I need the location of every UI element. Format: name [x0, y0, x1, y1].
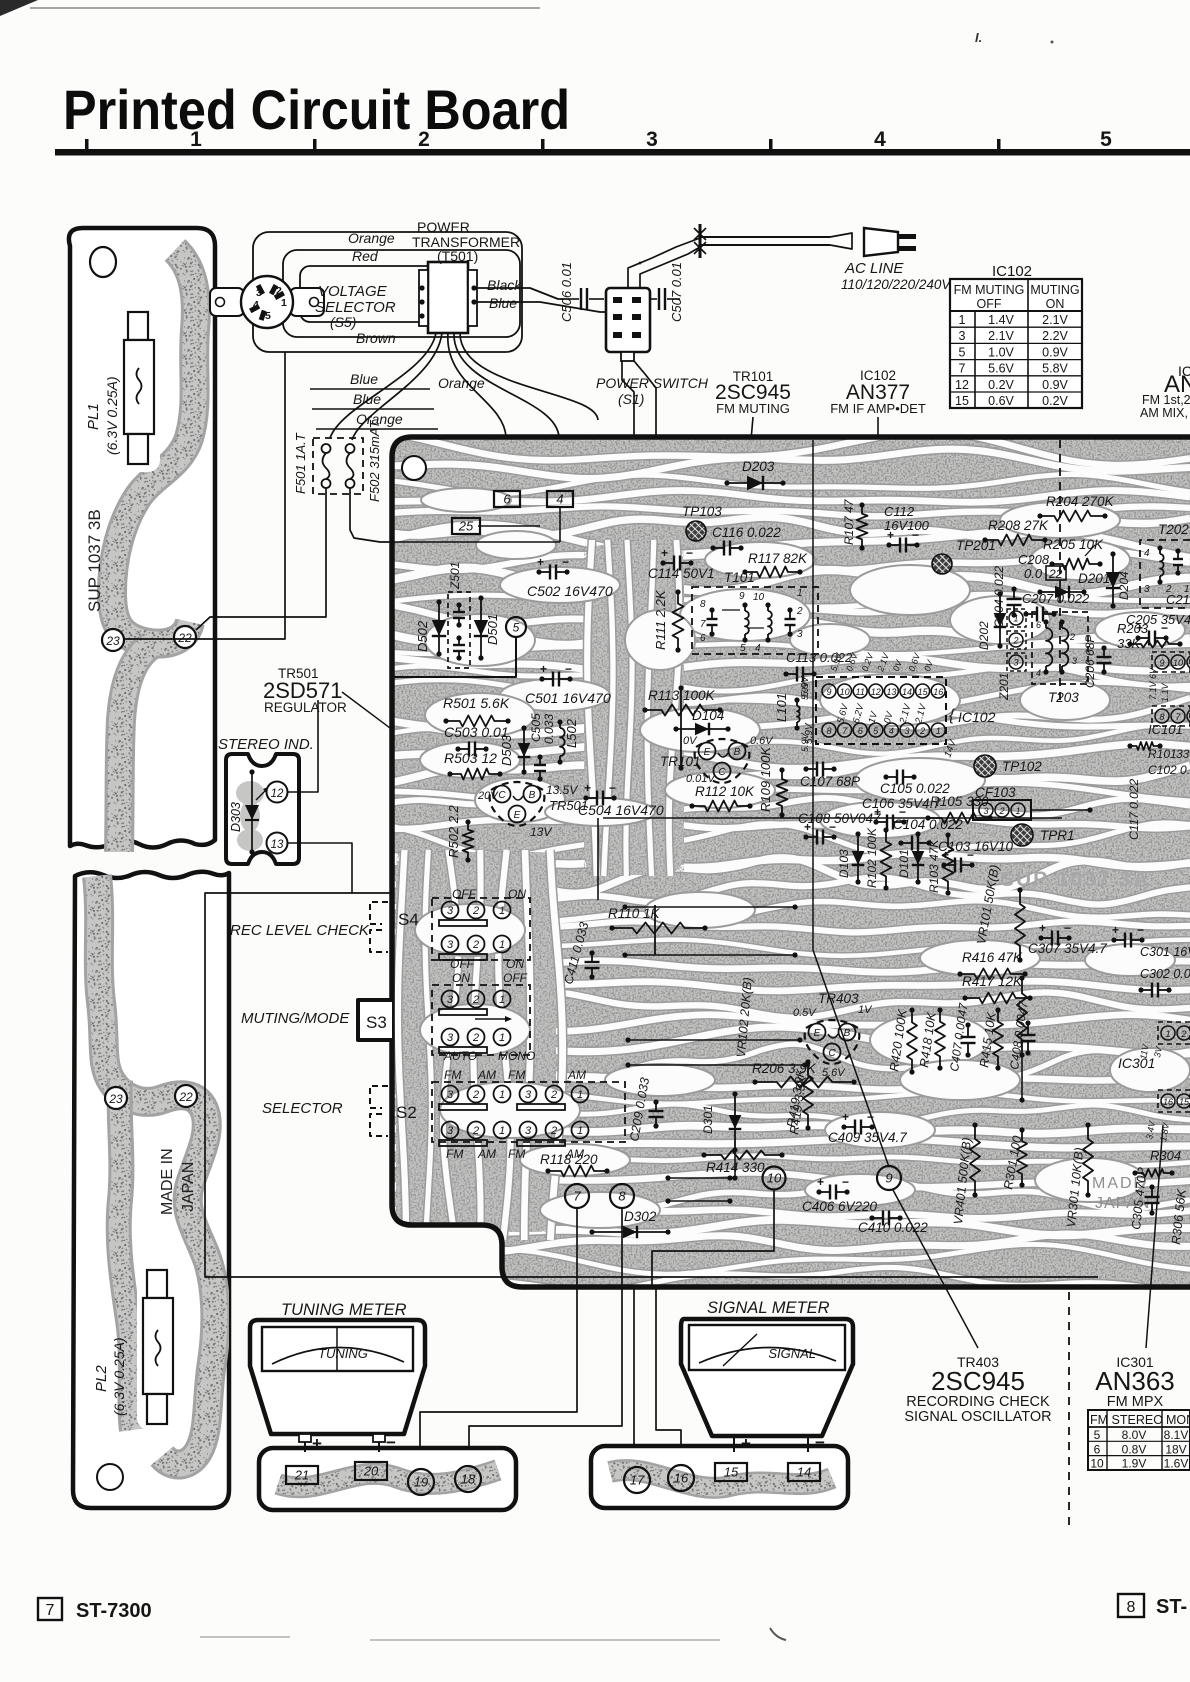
- svg-text:STEREO IND.: STEREO IND.: [218, 736, 314, 753]
- svg-text:TP102: TP102: [1002, 759, 1042, 774]
- svg-text:21: 21: [294, 1468, 309, 1483]
- svg-text:D201: D201: [1078, 571, 1110, 586]
- svg-text:FM STEREO: FM STEREO: [1090, 1413, 1163, 1427]
- svg-text:SIGNAL OSCILLATOR: SIGNAL OSCILLATOR: [904, 1409, 1051, 1425]
- signal meter body: [681, 1319, 853, 1436]
- svg-text:Z201: Z201: [997, 673, 1011, 701]
- svg-text:15: 15: [724, 1465, 739, 1480]
- svg-text:5.9V: 5.9V: [800, 680, 810, 700]
- svg-text:6: 6: [1094, 1442, 1101, 1456]
- fuse F502: [346, 444, 355, 453]
- voltage selector S5 body: [241, 276, 293, 328]
- svg-text:3: 3: [447, 1032, 454, 1044]
- svg-text:Black: Black: [487, 277, 522, 293]
- signal terminals: [733, 1436, 735, 1452]
- wire loop inner: [300, 266, 442, 322]
- svg-text:SUP 1037 3B: SUP 1037 3B: [85, 509, 104, 612]
- svg-text:20V: 20V: [477, 790, 499, 802]
- S3 dashed box: [432, 985, 530, 1055]
- mounting hole board2: [97, 1464, 123, 1490]
- svg-text:1: 1: [1013, 614, 1018, 624]
- svg-text:19: 19: [414, 1475, 428, 1490]
- svg-text:0.6V: 0.6V: [988, 394, 1014, 408]
- svg-text:Red: Red: [352, 248, 379, 264]
- svg-text:R105 330: R105 330: [930, 794, 989, 809]
- svg-text:5: 5: [740, 643, 746, 654]
- svg-text:−: −: [565, 662, 572, 676]
- svg-text:T203: T203: [1048, 690, 1079, 705]
- svg-text:C206 68P: C206 68P: [1083, 635, 1097, 688]
- S4 bracket: [370, 902, 388, 924]
- svg-text:R502 2.2: R502 2.2: [446, 804, 461, 858]
- svg-text:R503 12: R503 12: [444, 750, 497, 766]
- svg-text:L502: L502: [564, 718, 579, 748]
- svg-text:C: C: [498, 790, 506, 801]
- svg-text:(S1): (S1): [618, 391, 644, 407]
- svg-text:D302: D302: [624, 1209, 657, 1224]
- svg-text:Printed Circuit Board: Printed Circuit Board: [63, 78, 570, 141]
- svg-text:2: 2: [998, 806, 1004, 816]
- svg-text:R111 2.2K: R111 2.2K: [653, 589, 668, 650]
- svg-text:2: 2: [472, 939, 479, 951]
- svg-text:9: 9: [885, 1171, 892, 1186]
- svg-text:(6.3V 0.25A): (6.3V 0.25A): [111, 1337, 127, 1416]
- svg-text:−: −: [1161, 621, 1168, 635]
- svg-text:D101: D101: [897, 849, 911, 878]
- svg-text:+: +: [540, 662, 547, 676]
- svg-text:RECORDING CHECK: RECORDING CHECK: [906, 1394, 1050, 1410]
- svg-text:−: −: [912, 528, 919, 542]
- svg-text:+: +: [312, 1434, 322, 1453]
- S2 contacts g2r1: [520, 1086, 537, 1103]
- svg-text:1: 1: [936, 726, 941, 736]
- svg-text:12: 12: [871, 687, 881, 697]
- svg-text:TPR1: TPR1: [1040, 828, 1075, 843]
- svg-text:TUNING METER: TUNING METER: [281, 1301, 407, 1319]
- transformer secondary wires: [330, 333, 436, 438]
- wire loop red: [283, 250, 520, 337]
- svg-text:C: C: [718, 767, 726, 778]
- dashed section line: [1059, 440, 1061, 700]
- S3 contacts row2: [442, 1029, 459, 1046]
- svg-text:3: 3: [256, 287, 262, 299]
- svg-text:13: 13: [886, 687, 896, 697]
- svg-text:R501 5.6K: R501 5.6K: [443, 695, 510, 711]
- svg-text:C504 16V470: C504 16V470: [578, 802, 664, 818]
- PL2 copper trace: [97, 876, 215, 1465]
- svg-text:IC101: IC101: [1148, 722, 1183, 737]
- svg-text:SUP 1037 3A: SUP 1037 3A: [1000, 868, 1150, 891]
- svg-text:4: 4: [1144, 548, 1150, 559]
- stereo indicator board: [226, 754, 299, 864]
- svg-text:D202: D202: [977, 621, 991, 650]
- svg-text:C112: C112: [884, 504, 915, 519]
- terminal 10: [763, 1167, 786, 1190]
- svg-text:23: 23: [108, 1092, 123, 1106]
- svg-text:MUTING/MODE: MUTING/MODE: [241, 1010, 350, 1027]
- lamp board PL1 outline: [69, 228, 215, 848]
- S4 contacts row1: [442, 902, 459, 919]
- svg-text:D303: D303: [229, 802, 243, 832]
- svg-text:OFF: OFF: [977, 297, 1002, 311]
- svg-text:2: 2: [276, 285, 282, 297]
- svg-text:IC102: IC102: [992, 263, 1032, 280]
- svg-text:1.1V: 1.1V: [1160, 682, 1170, 702]
- mounting hole: [90, 247, 116, 277]
- svg-text:10: 10: [840, 687, 850, 697]
- test point TPR1: [1011, 824, 1033, 846]
- svg-text:REC LEVEL CHECK: REC LEVEL CHECK: [230, 922, 370, 939]
- svg-text:C208: C208: [1018, 552, 1050, 567]
- svg-text:6: 6: [858, 726, 863, 736]
- S4 contacts row2: [442, 936, 459, 953]
- svg-text:18: 18: [461, 1472, 476, 1487]
- svg-text:1: 1: [499, 1125, 505, 1137]
- svg-text:B: B: [529, 790, 536, 801]
- voltage selector S5 plate: [210, 288, 244, 316]
- svg-text:FM MUTING: FM MUTING: [954, 283, 1025, 297]
- svg-text:D502: D502: [415, 620, 430, 652]
- svg-text:9: 9: [739, 591, 745, 602]
- svg-text:0V: 0V: [683, 735, 698, 747]
- AC cord: [700, 236, 830, 238]
- svg-text:5.9V: 5.9V: [800, 732, 810, 752]
- svg-text:C301 16V10: C301 16V10: [1140, 945, 1190, 959]
- svg-text:+: +: [817, 1175, 824, 1189]
- svg-text:1: 1: [1165, 1029, 1170, 1039]
- svg-text:15: 15: [955, 394, 969, 408]
- svg-text:17: 17: [630, 1473, 645, 1488]
- svg-text:2.1V: 2.1V: [988, 329, 1014, 343]
- svg-text:16: 16: [933, 687, 943, 697]
- pointer line TR403: [893, 1190, 978, 1348]
- svg-text:R117 82K: R117 82K: [748, 551, 808, 566]
- svg-text:D103: D103: [837, 849, 851, 878]
- svg-text:0.8V: 0.8V: [1122, 1442, 1147, 1456]
- svg-text:ST-7300: ST-7300: [76, 1600, 152, 1622]
- svg-text:0.0: 0.0: [1024, 566, 1043, 581]
- svg-text:5: 5: [959, 345, 966, 359]
- svg-text:C107 68P: C107 68P: [800, 774, 860, 789]
- svg-text:T202: T202: [1158, 522, 1189, 537]
- svg-text:C116 0.022: C116 0.022: [712, 525, 781, 540]
- svg-text:2SC945: 2SC945: [931, 1366, 1025, 1396]
- svg-text:4: 4: [253, 299, 259, 311]
- svg-text:10: 10: [753, 592, 765, 603]
- svg-text:R414 330: R414 330: [706, 1160, 765, 1175]
- terminal 22: [174, 626, 196, 648]
- svg-text:R103 47K: R103 47K: [927, 839, 941, 893]
- lamp board PL2 outline: [73, 872, 229, 1508]
- svg-text:C501 16V470: C501 16V470: [525, 690, 611, 706]
- footer page 8: [1118, 1594, 1144, 1617]
- svg-text:FM IF AMP•DET: FM IF AMP•DET: [830, 401, 926, 416]
- svg-text:D501: D501: [485, 614, 500, 645]
- svg-text:IC102: IC102: [958, 709, 996, 725]
- svg-text:C307 35V4.7: C307 35V4.7: [1028, 941, 1107, 956]
- wire from 10: [652, 1190, 774, 1287]
- svg-text:POWER: POWER: [417, 219, 470, 235]
- svg-text:OFF: OFF: [450, 957, 475, 971]
- svg-text:REGULATOR: REGULATOR: [264, 700, 347, 715]
- pointer line AN377: [877, 417, 879, 680]
- svg-text:3: 3: [646, 128, 658, 151]
- svg-text:2: 2: [1012, 636, 1018, 646]
- svg-text:8: 8: [700, 599, 706, 610]
- svg-text:FM: FM: [508, 1068, 525, 1082]
- svg-text:2: 2: [472, 1032, 479, 1044]
- svg-text:13.5V: 13.5V: [546, 783, 578, 797]
- svg-text:4: 4: [556, 492, 563, 507]
- svg-text:−: −: [1064, 921, 1071, 935]
- svg-text:+: +: [804, 820, 811, 834]
- svg-text:PL2: PL2: [93, 1365, 110, 1392]
- terminal 4: [547, 491, 573, 507]
- svg-text:2: 2: [472, 1125, 479, 1137]
- long wire to terminal 17: [622, 361, 634, 1464]
- svg-text:R107 47: R107 47: [842, 498, 856, 545]
- vertical trace pair: [680, 688, 682, 768]
- S3 contacts row1: [442, 991, 459, 1008]
- svg-text:+: +: [741, 1434, 751, 1453]
- svg-text:3: 3: [447, 994, 454, 1006]
- svg-text:2: 2: [472, 994, 479, 1006]
- tuning meter body: [250, 1320, 425, 1434]
- svg-text:SIGNAL: SIGNAL: [768, 1346, 816, 1361]
- copper trace texture: [380, 432, 1190, 466]
- svg-text:14: 14: [797, 1465, 811, 1480]
- svg-text:10: 10: [767, 1171, 782, 1186]
- terminal 15: [715, 1463, 747, 1481]
- svg-text:13: 13: [271, 839, 284, 851]
- svg-text:ST-: ST-: [1156, 1596, 1187, 1618]
- svg-text:3: 3: [1072, 656, 1077, 666]
- svg-text:13V: 13V: [530, 825, 552, 839]
- svg-text:JAPAN: JAPAN: [180, 1162, 197, 1212]
- svg-text:11: 11: [856, 687, 865, 697]
- svg-text:1: 1: [499, 905, 505, 917]
- svg-text:MUTING: MUTING: [1030, 283, 1079, 297]
- svg-text:1: 1: [499, 939, 505, 951]
- svg-text:−: −: [609, 781, 616, 795]
- svg-text:S2: S2: [396, 1103, 417, 1122]
- svg-text:C410 0.022: C410 0.022: [858, 1220, 928, 1235]
- svg-text:ON: ON: [506, 957, 524, 971]
- S2 contacts g2r2: [520, 1122, 537, 1139]
- trace pair dots: [625, 906, 795, 908]
- svg-text:2.1V: 2.1V: [1042, 313, 1068, 327]
- svg-text:16: 16: [1163, 1097, 1173, 1107]
- terminal 25: [452, 518, 480, 534]
- svg-text:C117 0.022: C117 0.022: [1127, 779, 1141, 840]
- scan specks: [0, 0, 38, 16]
- svg-text:TUNING: TUNING: [318, 1346, 368, 1361]
- pointer line TR101: [723, 417, 753, 766]
- svg-text:C104 0.022: C104 0.022: [893, 817, 963, 832]
- svg-text:AM: AM: [567, 1068, 586, 1082]
- svg-text:ON: ON: [1046, 297, 1065, 311]
- svg-text:0.033: 0.033: [542, 714, 556, 744]
- svg-text:MONO: MONO: [498, 1049, 535, 1063]
- svg-text:5.6V: 5.6V: [822, 1067, 846, 1079]
- svg-text:R110 1K: R110 1K: [608, 906, 661, 921]
- svg-text:3: 3: [904, 726, 909, 736]
- svg-text:D301: D301: [701, 1105, 715, 1134]
- svg-text:Blue: Blue: [353, 391, 381, 407]
- transistor TR501: [490, 782, 545, 826]
- pointer line TR501: [342, 692, 470, 788]
- svg-text:C102 0.0: C102 0.0: [1148, 763, 1190, 777]
- IC102 dashed box: [816, 677, 946, 744]
- svg-text:R208 27K: R208 27K: [988, 518, 1049, 533]
- svg-text:1: 1: [499, 1032, 505, 1044]
- svg-text:R204 270K: R204 270K: [1046, 494, 1115, 509]
- svg-text:2: 2: [796, 606, 803, 617]
- terminal 18: [455, 1466, 481, 1492]
- svg-text:(6.3V 0.25A): (6.3V 0.25A): [104, 376, 120, 455]
- svg-text:R203: R203: [1117, 621, 1149, 636]
- svg-text:4: 4: [889, 726, 894, 736]
- zener Z501 dashed box: [448, 592, 470, 668]
- svg-text:12: 12: [955, 378, 969, 392]
- svg-text:L101: L101: [774, 693, 789, 722]
- svg-text:14: 14: [902, 687, 912, 697]
- ruler bar: [55, 149, 1190, 156]
- svg-text:5.6V: 5.6V: [988, 362, 1014, 376]
- svg-text:B: B: [734, 747, 741, 758]
- svg-text:Blue: Blue: [489, 295, 517, 311]
- svg-text:0.2V: 0.2V: [988, 378, 1014, 392]
- svg-text:10: 10: [1090, 1457, 1104, 1471]
- svg-text:1: 1: [281, 297, 287, 309]
- svg-text:5: 5: [265, 310, 271, 322]
- svg-text:0.2V: 0.2V: [1042, 394, 1068, 408]
- S2 bracket: [370, 1086, 388, 1108]
- PL1 copper trace: [112, 250, 196, 644]
- lamp PL1: [118, 306, 160, 472]
- svg-text:5: 5: [1094, 1428, 1101, 1442]
- svg-text:(T501): (T501): [437, 248, 478, 264]
- svg-text:−: −: [967, 848, 974, 862]
- svg-text:−: −: [829, 820, 836, 834]
- svg-text:9: 9: [826, 687, 831, 697]
- transistor TR101: [695, 739, 750, 783]
- svg-text:−: −: [686, 546, 693, 560]
- svg-text:AM MIX,: AM MIX,: [1140, 406, 1188, 420]
- tuning meter base: [259, 1448, 516, 1510]
- svg-text:MADE IN: MADE IN: [159, 1148, 176, 1215]
- terminal 22 board2: [175, 1085, 197, 1107]
- svg-text:D503: D503: [499, 734, 514, 766]
- svg-text:0.6V: 0.6V: [750, 735, 774, 747]
- svg-text:+: +: [887, 528, 894, 542]
- svg-text:7.1V 6V: 7.1V 6V: [1148, 667, 1158, 700]
- svg-text:AN363: AN363: [1095, 1366, 1175, 1396]
- wire from 8: [469, 1208, 622, 1462]
- svg-text:8.0V: 8.0V: [1122, 1428, 1147, 1442]
- long wire to terminal 16: [634, 361, 681, 1462]
- svg-text:6: 6: [1036, 620, 1041, 630]
- svg-text:TR403: TR403: [818, 991, 859, 1006]
- svg-text:C302 0.04: C302 0.04: [1140, 967, 1190, 981]
- svg-text:0.9V: 0.9V: [1042, 345, 1068, 359]
- svg-text:SIGNAL METER: SIGNAL METER: [707, 1299, 830, 1317]
- svg-text:6: 6: [700, 633, 706, 644]
- svg-text:20: 20: [363, 1464, 379, 1479]
- svg-text:15: 15: [918, 687, 929, 697]
- svg-text:7: 7: [959, 362, 966, 376]
- svg-text:12: 12: [271, 788, 284, 800]
- svg-text:1: 1: [499, 994, 505, 1006]
- terminal 13: [267, 833, 288, 854]
- svg-text:1: 1: [499, 1089, 505, 1101]
- svg-text:C507 0.01: C507 0.01: [669, 262, 684, 322]
- main PCB board outline: [380, 432, 1190, 1291]
- IC101 pins right: [1152, 652, 1190, 672]
- svg-text:2: 2: [550, 1089, 557, 1101]
- svg-text:AC LINE: AC LINE: [844, 260, 904, 277]
- svg-text:Orange: Orange: [438, 375, 485, 391]
- lamp PL2: [137, 1264, 179, 1430]
- AC cord strain relief: [699, 224, 702, 258]
- svg-text:OFF: OFF: [503, 971, 528, 985]
- svg-text:AUTO: AUTO: [443, 1049, 477, 1063]
- svg-text:+: +: [842, 1110, 849, 1124]
- svg-text:3: 3: [1144, 584, 1150, 595]
- svg-text:Brown: Brown: [356, 330, 396, 346]
- fuse box dashed: [313, 438, 363, 494]
- wire from 7: [420, 1208, 577, 1465]
- svg-text:2: 2: [418, 128, 430, 151]
- svg-text:8: 8: [618, 1189, 626, 1204]
- svg-text:−: −: [386, 1433, 396, 1452]
- svg-text:8: 8: [826, 726, 831, 736]
- diode D204: [1112, 554, 1114, 606]
- T203 dashed box: [1032, 612, 1088, 684]
- terminal 8: [610, 1184, 634, 1208]
- long wire left loop: [205, 893, 1098, 1277]
- svg-text:4: 4: [755, 643, 761, 654]
- svg-text:+: +: [1112, 923, 1119, 937]
- terminal 7: [565, 1184, 589, 1208]
- svg-text:1: 1: [190, 128, 202, 151]
- terminal 17: [624, 1467, 650, 1493]
- svg-text:IC301: IC301: [1118, 1055, 1155, 1071]
- AC plug: [864, 228, 898, 256]
- svg-text:AM: AM: [477, 1147, 496, 1161]
- terminal 14: [788, 1463, 820, 1481]
- svg-text:SELECTOR: SELECTOR: [262, 1100, 343, 1117]
- svg-text:1: 1: [1015, 806, 1020, 816]
- svg-text:−: −: [842, 1175, 849, 1189]
- svg-text:FM 1st,2: FM 1st,2: [1142, 393, 1190, 407]
- svg-text:3: 3: [959, 329, 966, 343]
- dashed separator bottom: [1068, 1292, 1070, 1530]
- svg-text:R101: R101: [1148, 747, 1177, 761]
- S3 tab on board edge: [354, 1002, 392, 1040]
- svg-text:2: 2: [1069, 632, 1075, 642]
- svg-text:C406 6V220: C406 6V220: [802, 1199, 878, 1214]
- svg-text:MON: MON: [1166, 1413, 1190, 1427]
- svg-text:1.6V: 1.6V: [1164, 1457, 1189, 1471]
- svg-text:OFF: OFF: [452, 887, 477, 901]
- svg-text:15: 15: [1179, 1097, 1190, 1107]
- svg-text:FM: FM: [446, 1147, 463, 1161]
- svg-text:B: B: [844, 1028, 851, 1039]
- svg-text:R109 100K: R109 100K: [758, 746, 773, 812]
- svg-text:5: 5: [513, 620, 520, 634]
- svg-text:T101: T101: [724, 570, 755, 585]
